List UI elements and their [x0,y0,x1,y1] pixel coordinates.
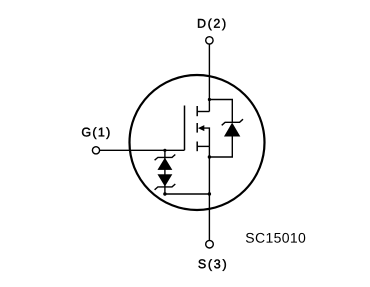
svg-text:SC15010: SC15010 [245,230,306,246]
wire source stub [197,145,209,147]
wire source vertical [208,146,210,240]
node source / body-diode junction [208,155,211,158]
wire drain to body-diode top [209,100,232,123]
mosfet Q1 channel bar middle [196,123,198,133]
wire protection chain vertical [164,150,166,194]
mosfet Q1 channel bar bottom [196,142,198,152]
terminal G(1) pin circle [92,147,99,154]
wire gate horizontal [100,149,185,151]
wire protection bottom to source [165,193,210,195]
terminal S(3) pin circle [206,240,214,248]
mosfet Q1 gate bar [184,106,186,151]
wire body stub [204,128,209,146]
node drain branch [208,98,211,101]
node gate / protection junction [163,149,166,152]
package circle [130,75,265,210]
diode Z2 triangle [158,175,172,186]
wire drain vertical [208,44,210,111]
diode D-body zener triangle [225,123,240,136]
diode D-body zener cathode bar [222,119,243,125]
diode Z2 cathode bar [155,184,176,190]
svg-text:D(2): D(2) [197,17,228,31]
node protection chain bottom [163,192,166,195]
wire body-diode bottom to source [209,136,232,157]
svg-text:S(3): S(3) [198,257,228,271]
mosfet Q1 channel bar top [196,106,198,116]
terminal D(2) pin circle [206,37,213,44]
diode Z1 cathode bar [155,155,176,161]
mosfet Q1 body arrow [198,125,204,131]
wire drain stub [197,111,209,113]
diode Z1 triangle [158,158,172,169]
node source line / protection junction [208,192,211,195]
svg-text:G(1): G(1) [81,125,111,139]
